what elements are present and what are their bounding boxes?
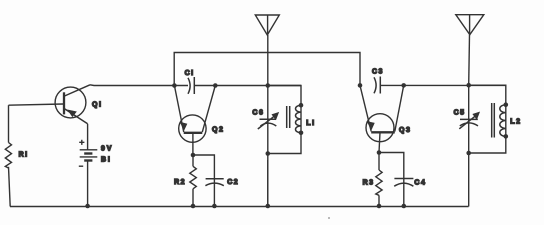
core of L2 bbox=[492, 103, 495, 138]
svg-text:Q3: Q3 bbox=[399, 127, 411, 134]
wire: tank1 top link to L1 bbox=[268, 86, 301, 106]
svg-text:RI: RI bbox=[19, 151, 29, 158]
label C3 bbox=[372, 69, 384, 76]
wire: left vertical branch bottom bbox=[9, 167, 11, 207]
label L1 bbox=[306, 120, 315, 127]
svg-text:Q2: Q2 bbox=[212, 126, 224, 133]
junction: node C3 right / Q3 collector bbox=[401, 83, 406, 88]
junction: L2 bottom bbox=[504, 134, 509, 139]
wire: tank2 to ground corner bbox=[468, 153, 470, 207]
label R1 bbox=[19, 151, 29, 158]
label C1 bbox=[185, 70, 195, 77]
core of L1 bbox=[287, 106, 290, 128]
svg-text:C5: C5 bbox=[454, 109, 466, 116]
label battery - polarity bbox=[79, 165, 83, 167]
wire: C3 right to antenna2 node bbox=[380, 84, 506, 86]
junction: antenna1 line at ground bbox=[266, 204, 271, 209]
svg-text:QI: QI bbox=[92, 101, 102, 108]
junction: L1 bottom bbox=[299, 131, 304, 136]
svg-text:R2: R2 bbox=[174, 179, 186, 186]
wire: Q2 base lead down bbox=[192, 133, 194, 155]
svg-text:9V: 9V bbox=[101, 145, 113, 152]
svg-text:LI: LI bbox=[306, 120, 315, 127]
wire: Q1 collector to C1 (main line) bbox=[90, 84, 188, 87]
label 9V bbox=[101, 145, 113, 152]
label L2 bbox=[510, 119, 521, 126]
junction: tank1 bottom node bbox=[266, 151, 271, 156]
wire: Q2 base to C2 bbox=[193, 155, 214, 207]
junction: L1 top bbox=[299, 103, 304, 108]
junction: R2 to ground bbox=[191, 204, 196, 209]
label C5 bbox=[454, 109, 466, 116]
battery B1 bbox=[80, 150, 98, 207]
resistor R1 bbox=[5, 143, 11, 169]
junction: Q3 base node bbox=[377, 150, 382, 155]
junction: node antenna1 / C1 output bbox=[266, 83, 271, 88]
junction: node C3 left bbox=[358, 83, 363, 88]
svg-text:R3: R3 bbox=[363, 179, 375, 186]
inductor L1 bbox=[296, 105, 302, 133]
resistor R3 bbox=[376, 153, 382, 207]
junction: node C1 right / Q2 collector bbox=[213, 83, 218, 88]
capacitor C1 bbox=[188, 77, 194, 94]
wire: left vertical branch top bbox=[8, 105, 10, 142]
wire: top rail between stages bbox=[174, 53, 360, 86]
label C4 bbox=[414, 179, 426, 186]
svg-text:C3: C3 bbox=[372, 69, 384, 76]
svg-text:BI: BI bbox=[101, 156, 112, 163]
wire: antenna 2 down lead bbox=[468, 35, 471, 85]
junction: battery to ground bbox=[85, 204, 90, 209]
wire: antenna1 line to ground (part of continuous lead) bbox=[267, 160, 269, 207]
svg-text:L2: L2 bbox=[510, 119, 521, 126]
wire: Q1 emitter down to battery bbox=[87, 124, 89, 150]
wire: tank1 bottom link bbox=[268, 133, 301, 154]
junction: node antenna2 / C3 output bbox=[466, 83, 471, 88]
wire: Q3 base to C4 bbox=[379, 153, 404, 207]
label R2 bbox=[174, 179, 186, 186]
svg-text:CI: CI bbox=[185, 70, 195, 77]
transistor Q3 bbox=[360, 85, 404, 141]
antenna ANT2 bbox=[456, 15, 484, 35]
junction: R3 to ground bbox=[377, 204, 382, 209]
svg-text:C2: C2 bbox=[227, 179, 239, 186]
wire: Q1 base lead bbox=[9, 104, 64, 105]
wire: tank2 top link to L2 bbox=[469, 85, 506, 105]
junction: L2 top bbox=[504, 102, 509, 107]
label C6 bbox=[252, 109, 264, 116]
wire: C1 right to antenna node bbox=[194, 85, 301, 87]
label Q1 bbox=[92, 101, 102, 108]
svg-text:C6: C6 bbox=[252, 109, 264, 116]
label battery + polarity bbox=[79, 140, 84, 145]
wire: ground rail (bottom) bbox=[10, 206, 469, 208]
wire: tank2 bottom link bbox=[469, 136, 506, 153]
svg-text:C4: C4 bbox=[414, 179, 426, 186]
capacitor C5 (variable) bbox=[459, 85, 479, 153]
antenna ANT1 bbox=[255, 15, 279, 35]
label R3 bbox=[363, 179, 375, 186]
label Q3 bbox=[399, 127, 411, 134]
inductor L2 bbox=[500, 105, 506, 137]
capacitor C2 bbox=[205, 179, 223, 186]
label C2 bbox=[227, 179, 239, 186]
resistor R2 bbox=[190, 155, 197, 207]
transistor Q2 bbox=[174, 86, 215, 143]
junction: node C1 left bbox=[172, 83, 177, 88]
junction: Q2 base node bbox=[191, 153, 196, 158]
speck (scan artifact) bbox=[328, 217, 330, 219]
wire: Q3 base lead down bbox=[379, 132, 380, 152]
junction: tank2 bottom node bbox=[466, 151, 471, 156]
junction: C2 to ground bbox=[212, 204, 217, 209]
capacitor C4 bbox=[394, 179, 413, 187]
junction: C4 to ground bbox=[402, 204, 407, 209]
wire: antenna 1 down lead bbox=[267, 35, 269, 207]
transistor Q1 bbox=[55, 85, 90, 124]
capacitor C6 (variable) bbox=[258, 113, 279, 129]
label Q2 bbox=[212, 126, 224, 133]
label B1 bbox=[101, 156, 112, 163]
capacitor C3 bbox=[374, 77, 380, 94]
